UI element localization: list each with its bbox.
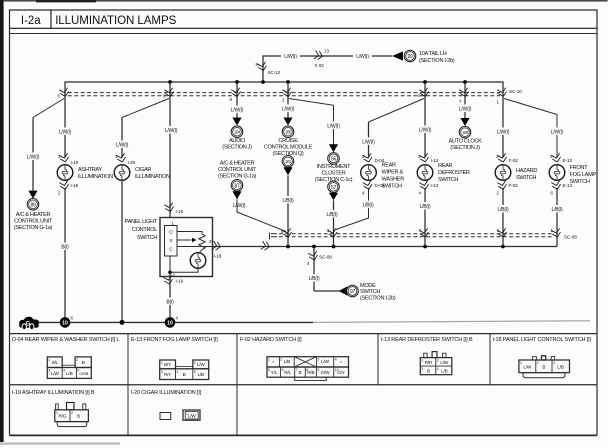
label L/B(I)	[495, 205, 512, 212]
svg-text:F-02 HAZARD SWITCH [I]: F-02 HAZARD SWITCH [I]	[240, 337, 302, 343]
scan bottom-left smudge	[0, 443, 120, 445]
lamp: REAR WIPER & WASHER SWITCH	[361, 163, 405, 190]
svg-text:L/W(I): L/W(I)	[165, 128, 178, 134]
wire: wiper return to dimmer bus	[336, 188, 369, 230]
svg-text:SWITCH: SWITCH	[438, 177, 458, 183]
svg-text:I-19: I-19	[71, 160, 79, 165]
svg-text:AUDIO: AUDIO	[229, 138, 246, 144]
svg-text:CONTROL MODULE: CONTROL MODULE	[264, 145, 313, 151]
svg-text:1: 1	[186, 412, 188, 416]
svg-text:SWITCH: SWITCH	[382, 184, 402, 190]
svg-text:(SECTION J): (SECTION J)	[222, 145, 252, 151]
svg-text:B: B	[77, 414, 80, 419]
connector face D-04	[47, 357, 91, 379]
svg-text:CRUISE: CRUISE	[278, 138, 298, 144]
connector F-02 pin 2 below hazard lamp	[497, 181, 519, 196]
svg-text:G/SB: G/SB	[79, 371, 88, 376]
svg-text:2: 2	[76, 358, 78, 362]
svg-text:B: B	[427, 369, 430, 374]
connector face I-19	[55, 403, 89, 427]
svg-text:SC-08: SC-08	[564, 235, 577, 240]
svg-text:REAR: REAR	[438, 163, 453, 169]
wire: dimmer dashed bus pair	[279, 234, 553, 237]
svg-text:L/W(I): L/W(I)	[116, 143, 129, 149]
off-page connector 100: CRUISE CONTROL MODULE	[264, 118, 313, 158]
connector face E-13	[160, 360, 209, 380]
svg-text:FOG LAMP: FOG LAMP	[570, 172, 597, 178]
svg-text:D-04 REAR WIPER & WASHER SWITC: D-04 REAR WIPER & WASHER SWITCH [I] L	[12, 337, 119, 343]
svg-text:L/B(I): L/B(I)	[282, 198, 294, 204]
label L/W(I)	[162, 126, 180, 133]
scan dark top edge	[4, 0, 608, 2]
svg-text:L/W(I): L/W(I)	[497, 130, 510, 136]
svg-text:L/W(I): L/W(I)	[231, 108, 244, 114]
connector D-04 pin 4 below wiper lamp	[362, 181, 385, 196]
svg-text:L/B: L/B	[197, 372, 204, 377]
svg-text:3: 3	[161, 370, 163, 374]
svg-text:3: 3	[317, 358, 319, 362]
svg-text:B: B	[542, 364, 545, 369]
svg-text:G: G	[26, 322, 31, 328]
svg-text:L/W(I): L/W(I)	[362, 140, 375, 146]
svg-text:B(I): B(I)	[61, 245, 69, 251]
svg-text:DEFROSTER: DEFROSTER	[438, 170, 470, 176]
svg-text:L/W: L/W	[523, 364, 532, 369]
panel switch terminal strip O S C	[165, 226, 178, 257]
svg-text:I-2a: I-2a	[21, 15, 41, 27]
svg-text:O: O	[169, 230, 173, 235]
wire: rear wiper feed drop	[368, 122, 370, 157]
connector I-13 pin 2 above defroster lamp	[418, 153, 439, 163]
label L/W(I)	[456, 105, 474, 112]
off-page connector 101: cruise return	[282, 156, 294, 176]
off-page connector 56: INSTRUMENT CLUSTER	[315, 144, 353, 183]
svg-text:ILLUMINATION LAMPS: ILLUMINATION LAMPS	[55, 14, 176, 27]
table grid	[10, 334, 598, 436]
connector face I-13	[420, 352, 452, 375]
wire: diagonal tap2 to instrument cluster	[289, 99, 334, 146]
svg-text:I-18 PANEL LIGHT CONTROL SWITC: I-18 PANEL LIGHT CONTROL SWITCH [I]	[493, 337, 592, 343]
svg-text:L/B: L/B	[284, 359, 291, 364]
svg-text:L/B(I): L/B(I)	[497, 207, 509, 213]
dimmer bus tap pin 6 (cruise/87 return)	[281, 228, 293, 246]
svg-text:4: 4	[437, 367, 439, 371]
svg-text:SWITCH: SWITCH	[516, 175, 536, 181]
svg-text:L/W(I): L/W(I)	[27, 155, 40, 161]
svg-text:CONTROL: CONTROL	[132, 227, 157, 233]
svg-text:CLUSTER: CLUSTER	[322, 171, 346, 177]
lamp: ASHTRAY ILLUMINATION	[57, 165, 113, 181]
svg-text:B/Y: B/Y	[164, 362, 172, 367]
svg-text:MODE: MODE	[360, 283, 376, 289]
svg-text:99: 99	[408, 54, 413, 60]
svg-text:I-18: I-18	[214, 254, 222, 259]
svg-text:REAR: REAR	[382, 163, 397, 169]
svg-text:3: 3	[421, 367, 423, 371]
svg-text:1: 1	[520, 361, 522, 365]
svg-text:(SECTION J): (SECTION J)	[450, 145, 480, 151]
connector face I-18	[519, 356, 570, 378]
title block frame	[10, 10, 598, 28]
label L/W(I)	[360, 138, 378, 145]
label L/W(I)	[279, 105, 297, 112]
svg-text:INSTRUMENT: INSTRUMENT	[317, 164, 351, 170]
svg-text:R/L: R/L	[284, 370, 291, 375]
connector I-19 pin 1 above ashtray lamp	[58, 153, 79, 165]
wire: 87 return to dimmer bus	[237, 199, 286, 231]
svg-text:L/B: L/B	[66, 371, 73, 376]
dimmer bus tap pin 3 (hazard return)	[497, 228, 508, 247]
svg-text:L/W(I): L/W(I)	[59, 130, 72, 136]
wire: upper dashed bus pair	[68, 93, 500, 96]
svg-text:L/W: L/W	[440, 360, 449, 365]
wire: hazard return drop	[502, 188, 504, 231]
wire: diagonal tap3 to cigar column	[122, 99, 169, 118]
svg-text:WASHER: WASHER	[382, 177, 405, 183]
connector X 02 pin 13 on feed wire	[314, 49, 330, 69]
svg-text:2: 2	[194, 361, 196, 365]
chassis ground symbol (car icon)	[19, 317, 38, 330]
svg-text:5: 5	[268, 368, 270, 372]
connector SC-12 pin 9 on feed drop	[256, 62, 281, 75]
wire: hazard feed drop	[502, 99, 504, 158]
label L/W(I)	[548, 128, 566, 135]
svg-text:8: 8	[306, 368, 308, 372]
ground junction 10 (panel switch) pin 4	[165, 316, 179, 328]
label L/W(I) on feed wire right	[353, 52, 372, 59]
svg-text:CONTROL UNIT: CONTROL UNIT	[14, 219, 53, 225]
label L/W(I)	[56, 128, 74, 135]
bus tap connector pin 7 (auto clock branch)	[459, 82, 470, 104]
svg-text:WIPER &: WIPER &	[382, 170, 404, 176]
label L/W(I)	[325, 122, 343, 129]
svg-text:L/B(I): L/B(I)	[326, 212, 338, 218]
svg-text:B(I): B(I)	[166, 300, 174, 306]
svg-text:CONTROL UNIT: CONTROL UNIT	[218, 167, 257, 173]
label L/B(I)	[360, 201, 377, 208]
svg-text:AUTO CLOCK: AUTO CLOCK	[448, 138, 482, 144]
connector I-19 pin 2 below ashtray lamp	[58, 181, 79, 196]
svg-text:9: 9	[317, 368, 319, 372]
svg-text:R/B: R/B	[307, 370, 314, 375]
lamp: HAZARD SWITCH	[495, 165, 537, 181]
off-page connector 57: instrument cluster return	[328, 181, 340, 200]
svg-text:56: 56	[331, 157, 336, 163]
svg-text:7: 7	[296, 368, 298, 372]
connector I-18 pin 2 below panel switch	[163, 275, 183, 285]
label L/B(I)	[417, 202, 434, 209]
svg-text:Y/L: Y/L	[271, 370, 278, 375]
wire: cigar feed drop	[121, 118, 123, 158]
label L/W(I)	[113, 141, 131, 148]
svg-text:4: 4	[335, 358, 337, 362]
svg-text:10: 10	[335, 368, 339, 372]
wire: ashtray feed drop	[64, 99, 66, 158]
off-page connector 104: AUDIO	[222, 118, 252, 151]
svg-text:X 02: X 02	[315, 63, 325, 68]
ground bus wire	[34, 321, 313, 323]
svg-text:5: 5	[194, 370, 196, 374]
wire: diagonal SC-10 to front fog column	[504, 99, 557, 158]
dimmer bus tap pin 7 (defroster return)	[419, 228, 430, 247]
svg-text:SC-08: SC-08	[319, 255, 332, 260]
svg-text:(SECTION G-1a): (SECTION G-1a)	[218, 174, 257, 180]
connector I-13 pin 4 below defroster lamp	[419, 181, 439, 196]
svg-text:L/W: L/W	[197, 362, 206, 367]
svg-text:SC-12: SC-12	[268, 70, 281, 75]
svg-text:L/W: L/W	[321, 359, 330, 364]
svg-text:2: 2	[280, 358, 282, 362]
svg-text:A/C & HEATER: A/C & HEATER	[16, 212, 51, 218]
wire: mode switch drop	[313, 247, 315, 292]
svg-text:L/W(I): L/W(I)	[551, 130, 564, 136]
connector E-13 pin 2 above fog lamp	[550, 153, 572, 163]
junction dots on upper bus	[168, 80, 467, 84]
wire: diagonal tap4 to rear wiper column	[369, 99, 425, 123]
svg-text:R/Y: R/Y	[164, 372, 172, 377]
svg-text:I-20: I-20	[128, 160, 136, 165]
lamp: FRONT FOG LAMP SWITCH	[549, 165, 596, 185]
svg-text:L/W: L/W	[51, 371, 60, 376]
connector F-02 pin 3 above hazard lamp	[496, 153, 518, 163]
svg-text:L/W(I): L/W(I)	[233, 203, 246, 209]
lamp: CIGAR ILLUMINATION	[114, 165, 170, 181]
wire: panel switch ground exit	[169, 272, 171, 322]
label L/W(I)	[494, 128, 512, 135]
svg-text:ASHTRAY: ASHTRAY	[78, 167, 102, 173]
svg-text:13: 13	[324, 49, 329, 54]
svg-text:A/C & HEATER: A/C & HEATER	[220, 161, 255, 167]
svg-text:ILLUMINATION: ILLUMINATION	[135, 174, 170, 180]
connector face F-02	[267, 357, 349, 381]
connector SC-08 pin 4 on mode drop	[307, 251, 332, 266]
svg-text:G/W: G/W	[321, 370, 331, 375]
wire: dimmer return bus solid	[213, 246, 558, 248]
bus tap connector pin 5 (ashtray branch)	[58, 88, 70, 99]
panel switch internal wiring + rheostat	[170, 232, 213, 273]
svg-text:SC-10: SC-10	[509, 89, 522, 94]
off-page connector 109: AUTO CLOCK	[448, 118, 482, 151]
svg-text:2: 2	[537, 361, 539, 365]
bus tap connector pin 8 (audio branch)	[230, 82, 242, 102]
svg-text:1: 1	[56, 411, 58, 415]
svg-text:I-19: I-19	[71, 183, 79, 188]
svg-text:87: 87	[235, 183, 240, 189]
svg-text:2: 2	[71, 411, 73, 415]
svg-text:B: B	[299, 370, 302, 375]
svg-text:E-13 FRONT FOG LAMP SWITCH [I]: E-13 FRONT FOG LAMP SWITCH [I]	[131, 337, 218, 343]
svg-text:6: 6	[282, 368, 284, 372]
bus tap connector pin 2 (cruise branch)	[282, 82, 293, 103]
svg-text:E-13: E-13	[563, 158, 573, 163]
dimmer bus tap pin 5 (cluster/wiper return)	[327, 228, 338, 247]
wire: cruise feed drop	[287, 99, 289, 118]
svg-text:3: 3	[48, 369, 50, 373]
svg-text:S/L: S/L	[51, 360, 58, 365]
wire: cigar ground drop	[121, 180, 123, 322]
svg-text:10A TAIL LH: 10A TAIL LH	[419, 51, 447, 57]
svg-text:F-02: F-02	[509, 158, 519, 163]
svg-text:1: 1	[48, 358, 50, 362]
svg-text:F-02: F-02	[509, 183, 519, 188]
label L/W(I)	[416, 126, 434, 133]
svg-text:CIGAR: CIGAR	[135, 167, 151, 173]
off-page connector 97: MODE SWITCH	[314, 283, 396, 302]
label L/B(I)	[549, 205, 566, 212]
ground junction 10 (ashtray) pin 6	[60, 316, 74, 328]
svg-text:L/B(I): L/B(I)	[419, 204, 431, 210]
svg-text:2: 2	[437, 358, 439, 362]
svg-text:4: 4	[177, 370, 179, 374]
connector D-04 pin 3 above wiper lamp	[362, 153, 385, 163]
wire: ashtray ground drop B	[64, 188, 66, 322]
wire: defroster return drop	[424, 188, 426, 231]
svg-text:L/B: L/B	[557, 364, 564, 369]
svg-text:5: 5	[77, 369, 79, 373]
svg-text:PANEL LIGHT: PANEL LIGHT	[125, 219, 158, 225]
svg-text:SWITCH: SWITCH	[137, 235, 157, 241]
label L/W(I) on feed wire left	[281, 52, 300, 59]
svg-text:3: 3	[553, 361, 555, 365]
wire: tail fuse feed L/W	[263, 56, 392, 82]
svg-text:G/Y: G/Y	[337, 370, 346, 375]
panel light control switch box	[125, 218, 213, 277]
wire: upper illumination feed bus (solid)	[65, 82, 503, 89]
svg-text:L/W(I): L/W(I)	[284, 54, 297, 60]
scan black left edge	[0, 0, 4, 442]
label B(I)	[59, 243, 72, 250]
wire: diagonal tap5 to A/C heater column	[33, 99, 64, 118]
bus tap connector pin 4 (defroster branch)	[418, 82, 430, 99]
wire: A/C heater drop L/W	[32, 118, 34, 191]
dimmer dashed bus start marker	[270, 233, 278, 240]
svg-text:L/B(I): L/B(I)	[362, 203, 374, 209]
svg-text:4: 4	[63, 369, 65, 373]
bus tap connector pin 3 (panel switch branch)	[163, 82, 175, 99]
svg-text:L/W(I): L/W(I)	[282, 107, 295, 113]
svg-text:B: B	[82, 360, 85, 365]
svg-text:89: 89	[31, 202, 36, 208]
ground bus faint continuation	[313, 321, 590, 323]
svg-text:1: 1	[421, 358, 423, 362]
svg-text:D-04: D-04	[375, 183, 385, 188]
svg-text:E-13: E-13	[563, 183, 573, 188]
label L/W(I)	[228, 106, 246, 113]
connector I-20 pin 1 above cigar lamp	[115, 153, 136, 165]
svg-text:I-13 REAR DEFROSTER SWITCH [I]: I-13 REAR DEFROSTER SWITCH [I] B	[381, 337, 473, 343]
connector E-13 pin 6 below fog lamp	[551, 181, 573, 196]
wire: cruise return drop L/B	[287, 175, 289, 231]
svg-text:L/B(I): L/B(I)	[308, 276, 320, 282]
in-line connector on dimmer bus	[261, 241, 270, 251]
svg-text:I-20 CIGAR ILLUMINATION [I]: I-20 CIGAR ILLUMINATION [I]	[131, 390, 202, 396]
svg-text:(SECTION G-1a): (SECTION G-1a)	[14, 225, 53, 231]
svg-text:SWITCH: SWITCH	[360, 289, 380, 295]
wire: audio feed drop	[236, 99, 238, 118]
svg-text:L/B: L/B	[441, 369, 448, 374]
svg-text:FRONT: FRONT	[570, 165, 589, 171]
svg-text:1: 1	[161, 361, 163, 365]
junction dot (cigar ground)	[120, 320, 125, 325]
svg-text:L/W: L/W	[188, 414, 197, 419]
svg-text:1: 1	[268, 358, 270, 362]
connector I-18 pin 1 above panel switch	[164, 203, 183, 214]
label L/W(I)	[24, 153, 42, 160]
wire: cluster return drop L/B	[333, 200, 335, 231]
svg-text:I-19 ASHTRAY ILLUMINATION [I]: I-19 ASHTRAY ILLUMINATION [I] B	[12, 390, 95, 396]
svg-text:57: 57	[331, 185, 336, 191]
svg-text:B: B	[183, 372, 186, 377]
svg-text:I-13: I-13	[431, 183, 439, 188]
svg-text:(SECTION I-2b): (SECTION I-2b)	[360, 296, 396, 302]
wire: auto clock feed drop	[464, 99, 466, 119]
label L/B(I)	[324, 210, 341, 217]
dimmer bus tap SC-08 pin 1 (fog return)	[551, 228, 578, 240]
svg-text:97: 97	[350, 289, 355, 295]
svg-text:ILLUMINATION: ILLUMINATION	[78, 174, 113, 180]
wire: defroster feed drop	[424, 99, 426, 158]
off-page connector 87: A/C & HEATER CONTROL UNIT output	[218, 161, 257, 200]
bus tap connector SC-10 pin 1 (hazard branch)	[497, 88, 523, 105]
off-page connector 99: 10A TAIL LH	[392, 50, 455, 64]
lamp: REAR DEFROSTER SWITCH	[417, 163, 470, 183]
svg-text:L/W(I): L/W(I)	[327, 124, 340, 130]
label L/B(I)	[280, 196, 297, 203]
svg-text:L/W(I): L/W(I)	[356, 54, 369, 60]
svg-text:HAZARD: HAZARD	[516, 168, 537, 174]
label L/B(I)	[306, 274, 323, 281]
svg-text:L/W(I): L/W(I)	[419, 128, 432, 134]
junction dots on dimmer bus	[286, 245, 505, 249]
lamp inside panel switch	[190, 253, 206, 269]
svg-text:SWITCH: SWITCH	[570, 179, 590, 185]
label B(I)	[164, 298, 177, 305]
junction dot panel switch pin 2	[168, 271, 172, 275]
svg-text:R/G: R/G	[59, 414, 67, 419]
svg-text:S: S	[169, 238, 172, 243]
wire: panel switch feed drop	[169, 99, 171, 218]
svg-text:L/W(I): L/W(I)	[459, 107, 472, 113]
rheostat wiper arrow	[192, 238, 197, 242]
wire: fog return drop	[556, 188, 558, 247]
svg-text:R/R: R/R	[425, 360, 433, 365]
svg-text:I-18: I-18	[176, 209, 184, 214]
connector face I-20	[160, 410, 200, 420]
off-page connector 89: A/C & HEATER CONTROL UNIT	[14, 191, 53, 232]
svg-text:L/B(I): L/B(I)	[551, 207, 563, 213]
svg-text:(SECTION I-2b): (SECTION I-2b)	[419, 58, 455, 64]
connector I-18 pin 3 on dimmer bus	[209, 239, 222, 259]
svg-text:I-18: I-18	[176, 279, 184, 284]
